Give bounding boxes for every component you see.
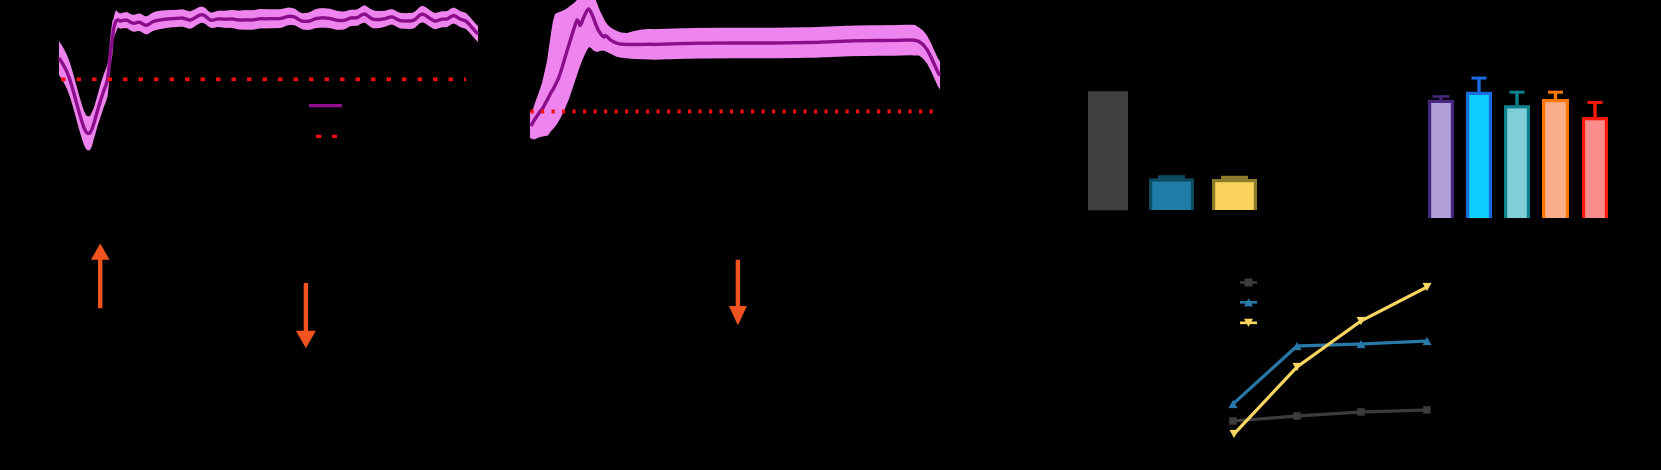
bar chart C: gray control bar	[1088, 91, 1128, 210]
bar chart C: yellow bar with error cap	[1212, 176, 1257, 210]
panel A legend baseline sample	[316, 135, 337, 138]
panel E blue line with triangle markers	[1229, 337, 1432, 408]
up arrow (panel A onset)	[91, 243, 110, 308]
down arrow (panel B offset)	[729, 260, 747, 326]
panel A legend mean-line sample	[309, 104, 342, 107]
panel A error band	[59, 5, 478, 150]
panel B baseline dotted line	[531, 110, 936, 114]
down arrow (panel A offset)	[296, 283, 316, 348]
bar chart D: teal bar with error bar	[1504, 91, 1530, 218]
panel B error band	[530, 0, 940, 140]
bar chart D: purple bar with error bar	[1428, 95, 1454, 218]
bar chart D: red bar with error bar	[1582, 101, 1608, 218]
bar chart D: orange bar with error bar	[1542, 91, 1569, 218]
panel B mean trace	[531, 9, 940, 126]
bar chart D: blue bar with error bar	[1466, 77, 1492, 218]
bar chart C: teal bar with error cap	[1149, 175, 1194, 210]
panel E legend blue entry	[1240, 298, 1257, 306]
panel A baseline dotted line	[61, 78, 466, 82]
panel E legend yellow entry	[1240, 319, 1257, 327]
panel E legend gray entry	[1240, 279, 1257, 287]
panel E gray line with square markers	[1229, 406, 1431, 425]
panel A mean trace	[59, 14, 478, 134]
panel E yellow line with triangle markers	[1230, 283, 1432, 438]
